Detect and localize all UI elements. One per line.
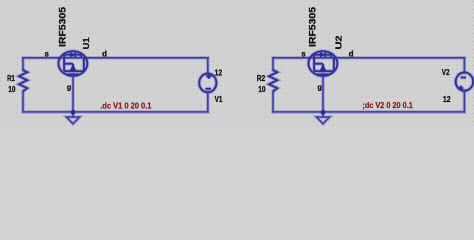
svg-text:IRF5305: IRF5305 xyxy=(307,7,317,47)
svg-text:g: g xyxy=(67,83,72,92)
svg-text:V2: V2 xyxy=(442,67,450,77)
svg-text:s: s xyxy=(45,49,50,58)
svg-text:10: 10 xyxy=(258,85,266,94)
svg-text:U1: U1 xyxy=(82,37,91,50)
svg-text:R1: R1 xyxy=(7,74,15,83)
wire core pass xyxy=(23,58,464,124)
svg-text:10: 10 xyxy=(8,85,16,94)
fills halo pass xyxy=(70,53,325,115)
svg-text:U2: U2 xyxy=(334,35,344,49)
svg-text:12: 12 xyxy=(443,94,451,104)
svg-text:12: 12 xyxy=(215,68,223,78)
symbol core pass xyxy=(19,51,473,92)
svg-text:.dc V1 0 20 0.1: .dc V1 0 20 0.1 xyxy=(100,101,152,110)
svg-text:V1: V1 xyxy=(215,94,223,104)
svg-text:IRF5305: IRF5305 xyxy=(57,7,67,47)
fills core pass xyxy=(70,53,325,115)
wire halo pass xyxy=(23,58,464,124)
symbol halo pass xyxy=(19,51,473,92)
svg-text:d: d xyxy=(349,49,354,58)
svg-text:d: d xyxy=(102,49,107,58)
svg-text:g: g xyxy=(318,83,323,92)
svg-text:R2: R2 xyxy=(257,74,266,83)
svg-text:s: s xyxy=(301,49,306,58)
svg-text:;dc V2 0 20 0.1: ;dc V2 0 20 0.1 xyxy=(362,101,413,110)
